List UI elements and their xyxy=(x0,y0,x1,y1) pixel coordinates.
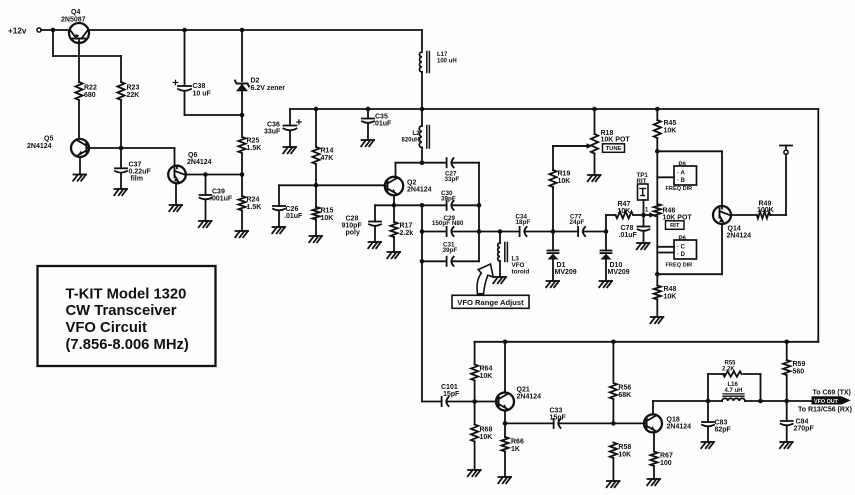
svg-text:680: 680 xyxy=(84,92,96,99)
svg-text:2N4124: 2N4124 xyxy=(187,159,212,166)
svg-text:2N4124: 2N4124 xyxy=(517,394,542,401)
wire Q4 base branch xyxy=(53,30,121,82)
ground R68 xyxy=(468,470,481,476)
capacitor C77 24pF xyxy=(570,214,586,237)
wire R18 branch xyxy=(594,109,596,175)
ground R67 xyxy=(647,479,660,485)
wire R17 to ground xyxy=(393,205,395,252)
junction Q21 base node xyxy=(472,399,477,404)
svg-text:0.22uF: 0.22uF xyxy=(129,169,152,176)
resistor R56 68K xyxy=(610,383,632,399)
svg-text:1K: 1K xyxy=(511,446,520,453)
ground C36 xyxy=(283,147,296,153)
wire L3 to ground xyxy=(499,232,501,278)
capacitor C84 270pF xyxy=(781,419,815,433)
junction Q14 emitter node xyxy=(655,272,660,277)
wire Q21 collector xyxy=(504,342,506,393)
transistor Q4 2N5087 xyxy=(61,9,89,43)
svg-text:15pF: 15pF xyxy=(443,391,460,398)
svg-text:.01uF: .01uF xyxy=(284,213,303,220)
capacitor C29 150pF N80 xyxy=(432,215,464,236)
svg-text:FREQ DIR: FREQ DIR xyxy=(666,263,693,269)
ground D10 xyxy=(599,281,612,287)
junction R25/R24 node xyxy=(240,172,245,177)
capacitor C78 .01uF xyxy=(619,225,650,239)
svg-text:10K: 10K xyxy=(321,215,334,222)
varactor D1 MV209 xyxy=(548,251,577,277)
wire R64 to base node xyxy=(474,381,476,425)
svg-text:C37: C37 xyxy=(129,162,142,169)
wire varactor line xyxy=(479,231,606,233)
inductor L17 100uH xyxy=(420,52,457,73)
svg-text:R47: R47 xyxy=(618,201,631,208)
wire TP1 lead xyxy=(643,200,645,215)
svg-text:910pF: 910pF xyxy=(342,223,363,230)
svg-text:560: 560 xyxy=(793,369,805,376)
wire C28 to ground xyxy=(374,227,376,242)
resistor R68 10K xyxy=(471,425,492,442)
wire R59 branch xyxy=(786,342,788,401)
wire R25 to R24 xyxy=(241,153,243,196)
svg-text:Q6: Q6 xyxy=(188,152,197,159)
wire C36 to ground xyxy=(289,132,291,148)
wire Q4 lead to R22 xyxy=(78,43,80,82)
junction R56/R58 node xyxy=(611,421,616,426)
diode D2 6.2V zener xyxy=(235,78,285,93)
svg-text:.01uF: .01uF xyxy=(373,121,392,128)
wire L17 to L2 xyxy=(421,72,423,126)
svg-text:L2: L2 xyxy=(412,131,420,137)
junction L2 at collector line xyxy=(420,160,425,165)
wire Q6 emitter to ground xyxy=(175,183,177,205)
svg-text:2N4124: 2N4124 xyxy=(407,187,432,194)
ground C78 xyxy=(637,243,650,249)
junction varactor line at rail xyxy=(477,229,482,234)
wire R46 to P6 xyxy=(656,217,658,253)
junction C31 tap xyxy=(420,259,425,264)
resistor R25 1.5K xyxy=(238,137,261,153)
inductor L3 VFO toroid xyxy=(498,243,530,276)
svg-text:R58: R58 xyxy=(618,444,631,451)
wire C101 to Q21 base xyxy=(446,401,496,403)
svg-text:10K: 10K xyxy=(480,373,493,380)
junction R59 at rail xyxy=(784,340,789,345)
ground L3 xyxy=(493,277,506,283)
junction C35 at rail xyxy=(366,107,371,112)
junction feedback tap lower xyxy=(420,229,425,234)
svg-text:Q5: Q5 xyxy=(44,136,53,143)
svg-text:4.7 uH: 4.7 uH xyxy=(725,388,743,394)
svg-text:RIT: RIT xyxy=(637,178,647,185)
svg-text:R46: R46 xyxy=(663,208,676,215)
wire C31 line xyxy=(422,260,479,262)
svg-text:C78: C78 xyxy=(621,225,634,232)
resistor R49 100K xyxy=(757,200,774,218)
wire D1 leads xyxy=(552,232,554,282)
junction D10/R47 node xyxy=(604,229,609,234)
svg-text:C84: C84 xyxy=(796,419,809,426)
svg-text:Q14: Q14 xyxy=(728,226,741,233)
ground R17 xyxy=(387,252,400,258)
svg-text:C26: C26 xyxy=(286,206,299,213)
svg-text:R24: R24 xyxy=(247,197,260,204)
potentiometer R18 10K TUNE xyxy=(553,130,630,154)
resistor R48 10K xyxy=(654,286,677,301)
junction R23/C37 on base line xyxy=(119,146,124,151)
junction C83/L16 left node xyxy=(706,399,711,404)
svg-text:2N4124: 2N4124 xyxy=(27,143,52,150)
junction D1/R19 node xyxy=(551,229,556,234)
wire P6 to R48 xyxy=(656,253,658,286)
svg-text:Q18: Q18 xyxy=(667,417,680,424)
svg-text:T-KIT Model 1320: T-KIT Model 1320 xyxy=(66,287,187,303)
wire +12V supply rail (top) xyxy=(41,30,422,50)
junction R59/C84 node xyxy=(784,399,789,404)
svg-text:poly: poly xyxy=(346,230,360,237)
ground C26 xyxy=(272,227,285,233)
resistor R14 47K xyxy=(312,147,333,164)
svg-text:P6: P6 xyxy=(679,236,687,242)
wire 8V rail (main horizontal) xyxy=(290,109,818,126)
wire Q14 collector to R49 xyxy=(731,154,786,215)
capacitor C39 .001uF xyxy=(200,189,233,203)
svg-text:Q4: Q4 xyxy=(71,9,80,16)
svg-text:1.5K: 1.5K xyxy=(247,204,262,211)
wire C37 stem xyxy=(120,148,122,189)
resistor R15 10K xyxy=(312,207,333,222)
resistor R59 560 xyxy=(783,360,805,376)
wire R68 to ground xyxy=(474,442,476,471)
transistor Q18 2N4124 xyxy=(644,414,691,432)
junction R14 at rail xyxy=(314,107,319,112)
transistor Q14 2N4124 xyxy=(713,206,751,240)
svg-text:.01uF: .01uF xyxy=(619,232,638,239)
svg-text:VFO Circuit: VFO Circuit xyxy=(66,320,147,336)
wire Q2 emitter line xyxy=(375,195,479,221)
wire R19 branch xyxy=(553,146,588,232)
wire C29 line xyxy=(422,231,479,233)
svg-text:R68: R68 xyxy=(480,427,493,434)
varactor D10 MV209 xyxy=(601,251,630,277)
resistor R66 1K xyxy=(501,437,524,453)
junction D2 at top rail xyxy=(240,28,245,33)
svg-text:10K: 10K xyxy=(558,178,571,185)
svg-text:C36: C36 xyxy=(267,122,280,129)
svg-text:Q2: Q2 xyxy=(407,180,416,187)
svg-text:RIT: RIT xyxy=(670,223,680,229)
wire Q21 emitter line xyxy=(505,410,644,423)
svg-text:R22: R22 xyxy=(84,85,97,92)
svg-text:R56: R56 xyxy=(618,385,631,392)
resistor R24 1.5K xyxy=(238,196,261,211)
svg-text:Q21: Q21 xyxy=(517,387,530,394)
svg-text:15pF: 15pF xyxy=(550,415,567,422)
resistor R67 100 xyxy=(650,452,673,468)
svg-text:(7.856-8.006 MHz): (7.856-8.006 MHz) xyxy=(66,337,189,353)
svg-text:100K: 100K xyxy=(757,207,774,214)
svg-text:R59: R59 xyxy=(793,361,806,368)
svg-text:To C69 (TX): To C69 (TX) xyxy=(813,390,851,397)
svg-text:10K: 10K xyxy=(480,434,493,441)
wire R47 line xyxy=(606,215,651,232)
wire R66 to ground xyxy=(504,423,506,477)
ground C39 xyxy=(199,221,212,227)
svg-text:2N4124: 2N4124 xyxy=(667,424,692,431)
svg-text:R45: R45 xyxy=(664,120,677,127)
svg-text:R23: R23 xyxy=(127,85,140,92)
output arrow VFO OUT xyxy=(798,390,852,414)
svg-text:C101: C101 xyxy=(441,384,458,391)
transistor Q6 2N4124 xyxy=(168,152,211,183)
svg-text:2.2k: 2.2k xyxy=(400,230,414,237)
inductor L16 4.7uH xyxy=(722,382,745,401)
svg-text:10K: 10K xyxy=(618,452,631,459)
svg-text:39pF: 39pF xyxy=(441,195,456,202)
junction R66 tap xyxy=(503,421,508,426)
svg-text:C39: C39 xyxy=(212,189,225,196)
title block xyxy=(38,266,216,366)
capacitor C83 82pF xyxy=(702,420,732,434)
wire D2 branch xyxy=(241,30,243,137)
svg-text:P8: P8 xyxy=(679,162,687,168)
wire Q2 collector line xyxy=(396,163,480,177)
svg-text:68K: 68K xyxy=(618,392,631,399)
ground R48 xyxy=(651,317,664,323)
svg-text:10K: 10K xyxy=(664,128,677,135)
svg-text:VFO Range Adjust: VFO Range Adjust xyxy=(457,298,524,307)
svg-text:To R13/C56 (RX): To R13/C56 (RX) xyxy=(798,407,852,414)
ground Q5 xyxy=(73,175,86,181)
capacitor C26 .01uF xyxy=(273,206,303,220)
transistor Q21 2N4124 xyxy=(496,387,541,411)
svg-text:R25: R25 xyxy=(247,138,260,145)
svg-text:150pF N80: 150pF N80 xyxy=(432,220,464,227)
svg-text:39pF: 39pF xyxy=(443,247,458,254)
svg-text:.001uF: .001uF xyxy=(210,196,233,203)
capacitor C34 18pF xyxy=(516,214,531,237)
wire R24 to ground xyxy=(241,211,243,232)
svg-text:10K: 10K xyxy=(618,208,631,215)
wire Q6 collector line xyxy=(186,174,242,176)
ground C83 xyxy=(701,442,714,448)
junction L17/L2 at rail xyxy=(420,107,425,112)
capacitor C31 39pF xyxy=(443,242,458,266)
wire C78 to ground xyxy=(643,215,645,243)
capacitor C38 10uF xyxy=(173,80,211,97)
wire R58 to ground xyxy=(612,458,614,481)
svg-text:C35: C35 xyxy=(375,114,388,121)
junction C38 at top rail xyxy=(182,28,187,33)
svg-text:R66: R66 xyxy=(511,439,524,446)
svg-text:33uF: 33uF xyxy=(264,129,281,136)
node +12V terminal xyxy=(8,27,41,36)
svg-text:10K: 10K xyxy=(664,294,677,301)
junction R56 at rail xyxy=(611,340,616,345)
wire C26 to ground xyxy=(278,212,280,228)
svg-text:C28: C28 xyxy=(346,216,359,223)
svg-text:47K: 47K xyxy=(321,155,334,162)
ground R66 xyxy=(498,477,511,483)
svg-text:24pF: 24pF xyxy=(570,219,585,226)
svg-text:D10: D10 xyxy=(610,262,623,269)
wire D10 leads xyxy=(605,232,607,282)
wire L2 to collector line xyxy=(421,148,423,163)
svg-text:R64: R64 xyxy=(480,366,493,373)
junction R18 at rail xyxy=(592,107,597,112)
wire C35 to ground xyxy=(367,109,369,140)
svg-text:1.5K: 1.5K xyxy=(247,145,262,152)
svg-text:CW Transceiver: CW Transceiver xyxy=(66,303,177,319)
junction at Q4 branch xyxy=(51,28,56,33)
svg-text:C83: C83 xyxy=(715,420,728,427)
resistor R47 10K xyxy=(616,201,650,218)
svg-text:10K POT: 10K POT xyxy=(601,137,631,144)
resistor R64 10K xyxy=(471,365,492,381)
junction L16 right node xyxy=(758,399,763,404)
capacitor C36 33uF xyxy=(264,120,301,136)
svg-text:6.2V zener: 6.2V zener xyxy=(251,85,286,92)
junction feedback tap upper xyxy=(420,203,425,208)
svg-text:R17: R17 xyxy=(400,223,413,230)
svg-text:VFO OUT: VFO OUT xyxy=(814,399,839,405)
test point TP1 RIT xyxy=(637,172,649,200)
potentiometer R46 10K RIT xyxy=(649,204,692,229)
ground R15 xyxy=(309,236,322,242)
connector P8 FREQ DIR xyxy=(666,162,697,192)
wire C38 branch xyxy=(185,30,243,115)
wire R14/R15 to Q2 base line xyxy=(315,164,317,207)
svg-text:R67: R67 xyxy=(660,453,673,460)
junction L3 tap xyxy=(498,229,503,234)
junction R45 at rail xyxy=(655,107,660,112)
wire right rail xyxy=(817,109,819,342)
wire P8 stub xyxy=(657,176,674,178)
svg-text:R14: R14 xyxy=(321,148,334,155)
ground C84 xyxy=(780,442,793,448)
junction C39 tap xyxy=(203,172,208,177)
wire Q5 emitter to ground xyxy=(79,157,81,175)
wire R22 to Q5 collector xyxy=(78,100,80,139)
svg-text:100: 100 xyxy=(660,460,672,467)
svg-text:22K: 22K xyxy=(127,92,140,99)
wire Q14 base xyxy=(657,151,722,206)
ground R24 xyxy=(235,231,248,237)
junction emitter line at right rail xyxy=(477,203,482,208)
svg-text:L17: L17 xyxy=(437,52,448,58)
transistor Q2 2N4124 xyxy=(385,177,432,195)
wire bottom supply rail xyxy=(475,342,819,365)
wire R23 to Q5 base node xyxy=(120,100,122,148)
svg-text:film: film xyxy=(131,176,143,183)
svg-text:· A: · A xyxy=(677,171,685,177)
resistor R55 2.2K xyxy=(722,361,742,377)
junction Q21 collector at rail xyxy=(503,340,508,345)
wire Q2 base line xyxy=(279,185,385,206)
wire P6 stub C xyxy=(657,246,674,248)
svg-text:C33: C33 xyxy=(550,408,563,415)
svg-text:MV209: MV209 xyxy=(608,269,630,276)
resistor R19 10K xyxy=(549,170,570,187)
ground C28 xyxy=(368,242,381,248)
wire R15 to ground xyxy=(315,220,317,237)
svg-text:2N4124: 2N4124 xyxy=(727,233,752,240)
inductor L2 820uH xyxy=(401,126,429,149)
svg-text:· B: · B xyxy=(677,178,686,184)
svg-text:MV209: MV209 xyxy=(555,269,577,276)
svg-text:C38: C38 xyxy=(193,83,206,90)
capacitor C30 39pF xyxy=(441,190,456,210)
svg-text:33pF: 33pF xyxy=(445,176,460,183)
resistor R17 2.2k xyxy=(390,222,413,237)
svg-text:+12v: +12v xyxy=(8,27,27,36)
capacitor C27 33pF xyxy=(445,158,460,183)
wire Q14 emitter xyxy=(657,224,722,274)
wire oscillator right rail xyxy=(478,163,480,262)
junction Q2 emitter xyxy=(392,203,397,208)
svg-text:R15: R15 xyxy=(321,208,334,215)
wire Q18 collector to output xyxy=(653,401,812,414)
junction Q14 base tap xyxy=(655,149,660,154)
node test point T xyxy=(780,146,792,155)
ground C35 xyxy=(361,140,374,146)
svg-text:R48: R48 xyxy=(664,286,677,293)
svg-text:100 uH: 100 uH xyxy=(437,58,457,64)
svg-text:D2: D2 xyxy=(251,78,260,85)
wire Q18 emitter to R67 xyxy=(653,433,655,479)
svg-text:FREQ DIR: FREQ DIR xyxy=(666,186,693,192)
transistor Q5 2N4124 xyxy=(27,136,89,158)
svg-text:toroid: toroid xyxy=(512,269,530,276)
ground R58 xyxy=(607,481,620,487)
wire C39 stem xyxy=(205,175,207,222)
svg-text:· D: · D xyxy=(677,252,686,258)
wire R45 column xyxy=(656,109,658,204)
wire R14 branch xyxy=(315,109,317,147)
svg-text:10 uF: 10 uF xyxy=(193,91,212,98)
ground R18 xyxy=(588,175,601,181)
resistor R45 10K xyxy=(654,120,677,138)
junction TP1/C78 node xyxy=(641,213,646,218)
ground C37 xyxy=(114,189,127,195)
callout VFO Range Adjust xyxy=(452,264,529,308)
capacitor C28 910pF poly xyxy=(342,216,382,237)
wire feedback column to C101 xyxy=(422,205,442,401)
svg-text:TUNE: TUNE xyxy=(606,146,622,152)
svg-text:· C: · C xyxy=(677,245,686,251)
svg-text:820uH: 820uH xyxy=(401,138,419,144)
svg-text:R19: R19 xyxy=(558,171,571,178)
svg-text:18pF: 18pF xyxy=(516,219,531,226)
svg-text:2.2K: 2.2K xyxy=(722,366,735,372)
connector P6 FREQ DIR xyxy=(666,236,697,269)
capacitor C35 .01uF xyxy=(362,114,392,128)
wire R56 branch xyxy=(612,342,614,424)
wire R48 to ground xyxy=(656,300,658,318)
junction C38/D2 node xyxy=(240,113,245,118)
capacitor C33 18pF xyxy=(550,408,567,429)
resistor R58 10K xyxy=(610,443,632,459)
wire C84 to ground xyxy=(786,401,788,442)
svg-text:270pF: 270pF xyxy=(794,426,815,433)
ground Q6 xyxy=(169,205,182,211)
wire Q5 base line xyxy=(89,148,175,166)
svg-text:D1: D1 xyxy=(557,262,566,269)
junction Q2 base divider xyxy=(314,183,319,188)
svg-text:2N5087: 2N5087 xyxy=(61,17,86,24)
capacitor C37 0.22uF film xyxy=(115,162,151,183)
wire R55 loop xyxy=(708,374,761,401)
resistor R22 680 xyxy=(75,82,97,100)
